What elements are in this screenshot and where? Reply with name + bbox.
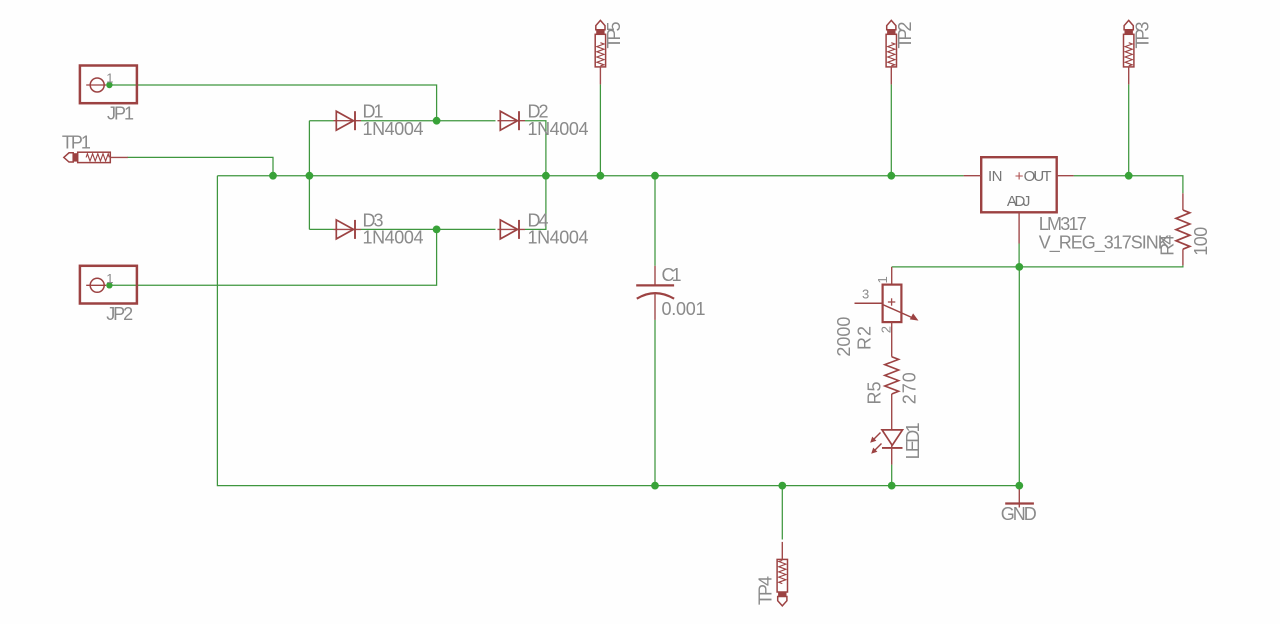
- svg-text:C1: C1: [662, 265, 682, 285]
- svg-text:3: 3: [862, 286, 869, 301]
- svg-text:TP2: TP2: [895, 22, 915, 49]
- svg-text:2000: 2000: [834, 317, 854, 357]
- wire R4 bottom to ADJ node: [892, 265, 1183, 267]
- node D2/D4 cathodes: [542, 172, 550, 180]
- svg-text:TP5: TP5: [604, 22, 624, 49]
- wire ADJ node down to GND: [1018, 267, 1020, 486]
- svg-text:1: 1: [106, 71, 113, 86]
- svg-text:0.001: 0.001: [662, 299, 706, 319]
- LED LED1: [870, 394, 902, 465]
- svg-text:2: 2: [879, 326, 894, 333]
- svg-text:1: 1: [875, 276, 890, 283]
- svg-text:1N4004: 1N4004: [363, 119, 424, 139]
- node TP1/main: [269, 172, 277, 180]
- diode D2: [498, 111, 526, 130]
- wire D1 cathode to D2 anode: [361, 120, 496, 122]
- wire D2 cathode down to rail: [525, 121, 546, 176]
- wire LED bottom to rail: [891, 465, 893, 486]
- wire JP2 to D3/D4 node: [109, 229, 436, 285]
- diode D4: [498, 220, 526, 239]
- test point TP4: [777, 542, 787, 606]
- svg-text:LM317: LM317: [1039, 214, 1087, 234]
- svg-text:ADJ: ADJ: [1007, 193, 1031, 210]
- node C1 bottom: [651, 482, 659, 490]
- capacitor C1: [636, 266, 674, 320]
- wire OUT to R4 top: [1074, 176, 1183, 194]
- svg-text:1: 1: [106, 271, 113, 286]
- wire TP4 drop: [781, 486, 783, 540]
- node ADJ: [1015, 263, 1023, 271]
- svg-text:1N4004: 1N4004: [363, 228, 424, 248]
- node GND: [1015, 482, 1023, 490]
- node D1-D2: [433, 117, 441, 125]
- wire left vertical to bottom rail: [217, 176, 1019, 486]
- svg-text:R5: R5: [865, 382, 885, 405]
- svg-text:100: 100: [1191, 227, 1211, 256]
- wire TP5 drop: [599, 84, 601, 175]
- diode D3: [334, 220, 362, 239]
- test point TP1: [64, 152, 128, 162]
- wire TP3 drop: [1128, 84, 1130, 175]
- resistor R4: [1176, 210, 1190, 249]
- svg-text:IN: IN: [988, 168, 1003, 185]
- node LED bottom: [888, 482, 896, 490]
- wire C1 branch: [654, 176, 656, 266]
- test point TP2: [886, 20, 896, 84]
- svg-text:JP1: JP1: [107, 104, 134, 124]
- regulator U1 LM317: [964, 157, 1074, 243]
- svg-text:GND: GND: [1001, 504, 1037, 524]
- node TP5: [597, 172, 605, 180]
- wire TP1 to main rail: [127, 157, 273, 175]
- node anode vertical/main: [306, 172, 314, 180]
- svg-text:270: 270: [899, 372, 919, 404]
- connector JP1: [80, 66, 137, 104]
- svg-text:1N4004: 1N4004: [528, 228, 589, 248]
- connector JP2: [80, 266, 137, 304]
- wire D1 anode branch: [309, 120, 333, 122]
- potentiometer R2: [855, 267, 919, 357]
- svg-text:TP1: TP1: [62, 132, 91, 152]
- resistor R5: [885, 357, 899, 394]
- svg-text:1N4004: 1N4004: [528, 119, 589, 139]
- wire D3 cathode to D4 anode: [361, 228, 496, 230]
- svg-text:R4: R4: [1157, 235, 1177, 256]
- ground symbol: [1005, 486, 1034, 508]
- node TP4: [778, 482, 786, 490]
- wire C1 bottom to rail: [654, 320, 656, 486]
- wire JP1 to D1/D2 node: [109, 85, 436, 121]
- svg-text:R2: R2: [855, 326, 875, 350]
- wire main horizontal rail: [217, 175, 963, 177]
- svg-text:OUT: OUT: [1024, 168, 1052, 185]
- wire D3 anode stub: [309, 228, 333, 230]
- svg-text:LED1: LED1: [903, 422, 923, 459]
- wire D4 cathode up to rail: [525, 176, 546, 230]
- svg-text:TP3: TP3: [1133, 22, 1153, 49]
- node D3-D4: [433, 226, 441, 234]
- diode D1: [334, 111, 362, 130]
- wire D1-D3 anode vertical: [308, 121, 310, 230]
- test point TP5: [595, 20, 605, 84]
- svg-text:TP4: TP4: [756, 576, 776, 605]
- svg-text:JP2: JP2: [106, 304, 133, 324]
- svg-text:+: +: [1015, 168, 1024, 185]
- wire ADJ stub green: [1018, 244, 1020, 267]
- wire TP2 drop: [890, 84, 892, 175]
- node TP3: [1125, 172, 1133, 180]
- node TP2: [887, 172, 895, 180]
- svg-text:V_REG_317SINK: V_REG_317SINK: [1039, 232, 1170, 253]
- node C1 top: [651, 172, 659, 180]
- test point TP3: [1124, 20, 1134, 84]
